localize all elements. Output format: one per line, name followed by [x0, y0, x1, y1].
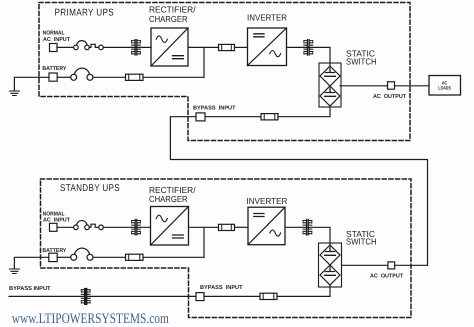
svg-text:AC OUTPUT: AC OUTPUT [370, 274, 403, 280]
transformer T1 [132, 40, 141, 55]
breaker CB1 circle b [85, 45, 90, 50]
static switch S2 box [319, 243, 342, 287]
rectifier U3 diagonal [151, 207, 189, 246]
rectifier U3 ac sine [156, 215, 167, 222]
svg-text:AC INPUT: AC INPUT [43, 37, 71, 43]
svg-text:INVERTER: INVERTER [247, 13, 287, 23]
wire: normal ac input to breaker [57, 46, 74, 48]
battery switch circle a [71, 74, 77, 80]
rectifier U3 dc bars [173, 235, 184, 238]
svg-text:CHARGER: CHARGER [149, 14, 188, 24]
feed wire from standby output to primary bypass [170, 117, 427, 266]
inverter U2 diagonal [248, 28, 287, 66]
static switch S2 scr 1 symbol [325, 247, 336, 255]
battery switch arc [74, 68, 89, 74]
svg-text:CHARGER: CHARGER [149, 194, 188, 204]
svg-text:www.LTIPOWERSYSTEMS.com: www.LTIPOWERSYSTEMS.com [12, 311, 170, 327]
wire: fuse F1 to inverter [235, 46, 248, 48]
rectifier/charger U3 box [151, 207, 189, 246]
fuse F5 [126, 254, 144, 260]
wire: inverter U4 through transformer T4 down to static switch [285, 227, 330, 245]
static switch S2 scr 2 diamond [320, 265, 340, 285]
bypass input terminal square (primary) [196, 113, 205, 121]
rectifier U1 dc bars [173, 56, 184, 59]
battery switch circle a (standby) [71, 254, 77, 260]
wire: standby battery square to switch [57, 256, 70, 258]
inverter U2 box [248, 28, 287, 66]
breaker CB2 circle b [85, 225, 90, 230]
breaker CB1 arc [77, 41, 87, 45]
transformer T2 [304, 40, 313, 55]
svg-text:SWITCH: SWITCH [346, 57, 377, 67]
inverter U4 diagonal [248, 207, 285, 245]
wire: fuse F6 to static switch S2 bottom [277, 285, 330, 296]
battery switch arc (standby) [74, 248, 89, 254]
rectifier U1 diagonal [151, 28, 188, 66]
bypass input terminal square (standby) [196, 293, 204, 301]
svg-text:AC INPUT: AC INPUT [43, 218, 71, 224]
breaker CB2 circle c [99, 225, 104, 230]
inverter U4 dc bars [254, 214, 264, 217]
wire: battery switch to fuse F5 [93, 256, 126, 258]
svg-text:SWITCH: SWITCH [346, 237, 377, 247]
wire: ac output terminal to ac loads [395, 85, 430, 87]
node: standby dc bus junction [203, 227, 205, 257]
transformer T5 [81, 289, 90, 304]
battery wire to ground [14, 77, 49, 90]
rectifier U1 ac sine [156, 36, 167, 43]
static switch S1 scr 1 symbol [325, 68, 336, 76]
wire: inverter to transformer T2 and down to static switch [287, 47, 331, 66]
wire: static switch S2 to ac output terminal [342, 264, 388, 266]
wire: fuse F4 to inverter U4 [235, 226, 249, 228]
battery terminal square (standby) [49, 253, 57, 261]
ac output terminal square [388, 82, 395, 89]
breaker CB2 arc [77, 221, 87, 225]
contact bump (standby) [89, 224, 98, 227]
ac output terminal square (standby) [388, 262, 395, 269]
ground symbol (standby) [9, 269, 19, 274]
fuse F2 [126, 74, 144, 80]
fuse F1 [219, 44, 235, 50]
wire: battery switch to fuse F2 [93, 76, 126, 78]
svg-text:LOADS: LOADS [438, 86, 451, 92]
svg-text:BYPASS INPUT: BYPASS INPUT [200, 285, 243, 291]
static switch S1 scr 1 diamond [320, 66, 340, 86]
node: dc bus junction [203, 47, 205, 77]
svg-text:BATTERY: BATTERY [42, 66, 66, 72]
svg-text:NORMAL: NORMAL [43, 30, 65, 36]
standby battery wire to ground [14, 257, 48, 268]
svg-text:PRIMARY UPS: PRIMARY UPS [55, 8, 115, 19]
svg-text:STANDBY UPS: STANDBY UPS [60, 183, 120, 194]
battery switch circle b (standby) [87, 254, 93, 260]
battery terminal square [49, 73, 57, 81]
wire: standby ac output to feed riser [395, 264, 428, 266]
inverter U2 dc bars [254, 34, 264, 37]
wire: fuse F3 to static switch bottom [278, 106, 330, 117]
wire: fuse F5 to standby dc bus [143, 256, 204, 258]
bypass input wire (primary) [170, 116, 196, 118]
ac loads box [429, 76, 461, 96]
svg-text:BATTERY: BATTERY [42, 248, 66, 254]
static switch S2 scr 2 symbol [325, 267, 336, 275]
fuse F3 [261, 114, 278, 120]
svg-text:INVERTER: INVERTER [246, 196, 287, 206]
wire: fuse F2 to dc bus [143, 76, 204, 78]
standby ups enclosure (dashed) [41, 179, 412, 318]
transformer T3 [132, 220, 141, 235]
breaker CB1 circle c [99, 45, 104, 50]
contact bump [89, 44, 98, 47]
standby normal ac input terminal square [50, 223, 58, 231]
static switch S1 box [319, 63, 341, 107]
fuse F6 [260, 293, 277, 299]
wire: bypass square to fuse F3 [205, 116, 261, 118]
static switch S2 scr 1 diamond [320, 245, 340, 265]
ground symbol (primary) [9, 91, 19, 96]
svg-text:BYPASS INPUT: BYPASS INPUT [9, 286, 51, 292]
fuse F4 [219, 224, 235, 230]
static switch S1 scr 2 diamond [320, 86, 340, 106]
external bypass input wire [9, 295, 196, 297]
svg-text:BYPASS INPUT: BYPASS INPUT [193, 105, 236, 111]
battery switch circle b [87, 74, 93, 80]
inverter U2 ac sine [270, 51, 281, 57]
wire: bypass square to fuse F6 [204, 295, 260, 297]
wire: breaker to transformer T3 [103, 226, 150, 228]
svg-text:NORMAL: NORMAL [43, 211, 65, 217]
wire: rectifier U3 to fuse F4 [189, 226, 219, 228]
breaker CB1 circle a [74, 45, 79, 50]
rectifier/charger U1 box [151, 28, 188, 66]
inverter U4 ac sine [270, 230, 281, 236]
transformer T4 [303, 220, 312, 235]
wire: breaker to transformer T1 [103, 46, 151, 48]
wire: rectifier to fuse F1 [188, 46, 219, 48]
breaker CB2 circle a [74, 225, 79, 230]
svg-text:AC OUTPUT: AC OUTPUT [373, 94, 406, 100]
primary ups enclosure (dashed) [39, 3, 410, 141]
inverter U4 box [248, 207, 285, 245]
wire: standby normal ac input to breaker [57, 226, 74, 228]
wire: static switch to ac output terminal [340, 85, 388, 87]
normal ac input terminal square [50, 44, 58, 52]
static switch S1 scr 2 symbol [325, 88, 336, 96]
wire: battery square to switch [57, 76, 70, 78]
